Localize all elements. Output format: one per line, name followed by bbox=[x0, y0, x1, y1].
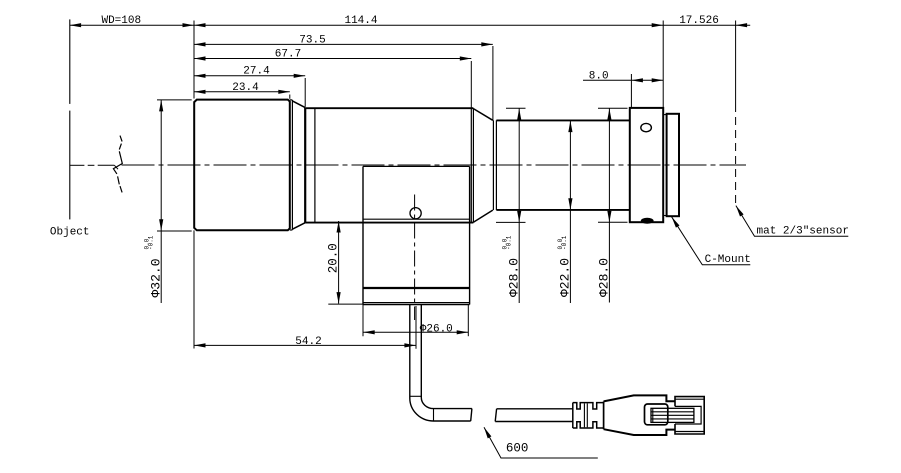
svg-text:67.7: 67.7 bbox=[275, 49, 301, 61]
8.0 dimension line bbox=[583, 79, 663, 81]
elbow joint tick bbox=[433, 409, 435, 421]
svg-text:27.4: 27.4 bbox=[243, 65, 270, 77]
svg-text:Object: Object bbox=[50, 226, 90, 238]
cone end double edge bbox=[493, 120, 496, 210]
illumination block top edge bbox=[363, 165, 470, 167]
svg-text:-0.1: -0.1 bbox=[148, 235, 155, 250]
strain relief ribs bbox=[573, 403, 604, 428]
600 leader bbox=[484, 427, 598, 458]
bottom set screw (edge view) bbox=[641, 218, 654, 224]
svg-text:8.0: 8.0 bbox=[589, 70, 609, 82]
rear barrel Φ22 bbox=[496, 120, 629, 209]
20.0 dimension line bbox=[338, 221, 340, 304]
54.2 right extension bbox=[415, 306, 417, 349]
cone transition Φ28→Φ22 bbox=[473, 109, 492, 223]
svg-text:23.4: 23.4 bbox=[232, 82, 259, 94]
svg-text:20.0: 20.0 bbox=[327, 243, 341, 273]
sensor plane line bbox=[735, 21, 737, 206]
Φ26 dimension line bbox=[363, 331, 468, 333]
20.0 bottom extension bbox=[328, 303, 363, 305]
54.2 dimension line bbox=[194, 344, 416, 346]
stem joint tick bbox=[410, 395, 422, 397]
svg-text:Φ22.0: Φ22.0 bbox=[558, 258, 573, 297]
cone transition Φ32→Φ28 bbox=[292, 101, 305, 229]
front cylinder right rim bbox=[290, 100, 293, 230]
object plane line bbox=[69, 19, 71, 219]
svg-text:WD=108: WD=108 bbox=[101, 15, 141, 27]
Φ26 extensions bbox=[362, 305, 364, 337]
main barrel Φ28 bbox=[305, 108, 473, 222]
C-Mount leader bbox=[672, 217, 751, 265]
illumination block right edge bbox=[469, 166, 471, 304]
block bottom plate lines bbox=[363, 302, 470, 304]
67.7 dimension line bbox=[194, 58, 471, 60]
indicator circle on barrel bbox=[410, 208, 421, 219]
cable piece after break bbox=[495, 409, 573, 422]
73.5 dimension line bbox=[194, 43, 493, 45]
cable piece to break bbox=[434, 409, 472, 421]
set screw hole bbox=[641, 123, 652, 131]
svg-text:600: 600 bbox=[506, 442, 529, 456]
rear flange ring bbox=[667, 114, 679, 216]
contact pin strip bbox=[651, 408, 694, 422]
sensor leader bbox=[736, 206, 848, 237]
cable stem bbox=[410, 305, 422, 399]
svg-text:114.4: 114.4 bbox=[344, 15, 377, 27]
dimension texts bbox=[101, 15, 718, 455]
cone end edge (thick) bbox=[304, 108, 306, 223]
svg-text:C-Mount: C-Mount bbox=[705, 254, 751, 266]
Φ22 dimension line bbox=[569, 120, 571, 303]
barrel ring edge bbox=[314, 108, 316, 222]
connector block bbox=[675, 397, 704, 434]
svg-text:Φ32.0: Φ32.0 bbox=[148, 258, 163, 297]
Φ32 extension lines bbox=[157, 99, 192, 101]
main horizontal centerline (optical axis) bbox=[70, 165, 746, 169]
front face extension up bbox=[193, 21, 195, 99]
svg-text:Φ28.0: Φ28.0 bbox=[506, 258, 521, 297]
svg-text:-0.1: -0.1 bbox=[561, 235, 568, 250]
svg-text:-0.1: -0.1 bbox=[506, 235, 513, 250]
svg-text:Φ28.0: Φ28.0 bbox=[597, 258, 612, 297]
block shoulder line bbox=[363, 218, 470, 220]
Φ28 left dimension line bbox=[518, 108, 520, 303]
block groove line (thick) bbox=[363, 287, 470, 289]
svg-text:17.526: 17.526 bbox=[679, 15, 719, 27]
extension 23.4 right bbox=[289, 95, 291, 99]
23.4 dimension line bbox=[194, 91, 290, 93]
Φ28 right dimension line bbox=[608, 108, 610, 302]
svg-text:54.2: 54.2 bbox=[295, 336, 321, 348]
extension 8.0 left bbox=[630, 74, 632, 108]
Φ32 dimension line bbox=[160, 100, 162, 303]
receptacle opening bbox=[645, 404, 668, 425]
top dimension line row (WD / 114.4 / 17.526) bbox=[70, 24, 751, 26]
lens barrel Φ32 front cylinder bbox=[194, 100, 290, 231]
dimension arrowheads bbox=[70, 23, 748, 438]
C-mount ring Φ28 bbox=[630, 108, 663, 222]
tolerance stacks bbox=[143, 235, 568, 250]
extension 27.4 right bbox=[304, 78, 306, 107]
cable elbow bbox=[410, 398, 434, 422]
rotated diameter texts bbox=[148, 243, 611, 297]
barrel right face double edge bbox=[471, 108, 473, 222]
extension 67.7 right bbox=[470, 61, 472, 108]
illumination block left edge bbox=[362, 166, 364, 304]
54.2 left extension (front face downward) bbox=[193, 230, 195, 348]
svg-text:mat 2/3″sensor: mat 2/3″sensor bbox=[757, 226, 849, 238]
extension 73.5 right bbox=[492, 46, 494, 120]
vertical centerline through block bbox=[414, 195, 416, 321]
block cavity bbox=[675, 406, 701, 424]
svg-text:73.5: 73.5 bbox=[299, 34, 325, 46]
27.4 dimension line bbox=[194, 75, 305, 77]
connector boot bbox=[604, 395, 675, 435]
extension 114.4/17.526 at C-mount face bbox=[662, 21, 664, 108]
axis break symbol (zigzag) bbox=[113, 136, 122, 193]
step lines to flange bbox=[663, 115, 666, 216]
svg-text:Φ26.0: Φ26.0 bbox=[420, 323, 453, 335]
